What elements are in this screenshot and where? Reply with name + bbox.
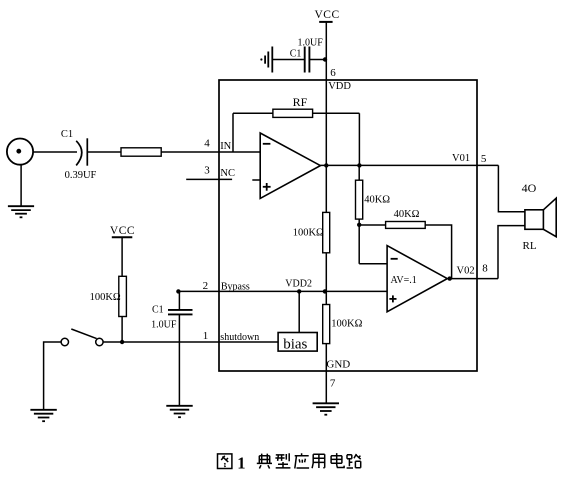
resistor 40K (vertical) body [356,180,363,219]
node bypass cap junction [176,289,180,293]
svg-text:3: 3 [204,165,210,177]
wire to RF [233,112,273,114]
wire switch to ground [44,342,62,410]
svg-text:100KΩ: 100KΩ [90,292,121,303]
svg-text:40KΩ: 40KΩ [394,209,420,220]
node resistor chain junction [323,289,327,293]
wire C1 to series resistor [87,151,121,153]
IC box U1 outline [219,80,477,371]
svg-text:shutdown: shutdown [220,332,259,343]
wire C1 to VDD rail [309,59,326,61]
wire U1 output to V01 pin 5 [320,164,498,166]
wire Bypass line pin 2 [178,290,387,292]
svg-text:C1: C1 [61,129,73,140]
svg-text:C1: C1 [152,304,164,315]
ground (left of C1 1.0UF, rotated) [260,47,272,73]
wire 40K to U2 output [425,225,451,279]
svg-text:V01: V01 [452,153,470,164]
VCC rail symbol (top) [315,9,340,22]
caption: 图 1 典型应用电路 [218,453,361,473]
node shutdown junction [120,340,124,344]
pin 3 NC stub [186,178,232,180]
svg-text:C1: C1 [290,49,302,60]
wire bypass node down to C1 cap [178,291,180,310]
wire connector to ground [20,165,22,207]
svg-text:1: 1 [203,330,209,342]
wire ground to C1 [272,59,304,61]
glyph 用 [312,454,325,468]
wire RF to output node [313,112,360,114]
resistor R_in body [121,148,161,156]
wire U2 output to V02 pin 8 [447,278,498,280]
svg-text:0.39UF: 0.39UF [65,170,97,181]
capacitor C1 0.39UF (input, polarized) [76,138,87,165]
wire pin 7 to ground [325,371,327,403]
resistor 100K (pull-up) body [119,276,127,316]
VCC rail symbol (left) [110,225,135,238]
ground (pin 7) [313,403,339,414]
svg-text:1.0UF: 1.0UF [151,320,177,331]
svg-text:7: 7 [330,377,336,389]
resistor 100K (lower internal) body [323,305,330,344]
wire resistor to pin 4 / op-amp U1 inverting input [161,151,260,153]
svg-text:VDD: VDD [328,81,351,92]
glyph 路 [347,454,361,468]
svg-text:bias: bias [283,336,307,352]
glyph 电 [331,453,344,467]
input connector J1 [7,139,33,165]
wire V01 to speaker [498,165,525,211]
svg-text:AV=.1: AV=.1 [391,275,417,286]
op-amp U1 [260,133,320,198]
node VDD2 junction [297,289,301,293]
wire connector to C1 input cap [33,151,77,153]
wire junction to U2 inverting input [359,263,387,265]
svg-text:8: 8 [482,262,488,274]
wire V02 up to speaker [498,226,525,279]
node U2 output junction [448,276,452,280]
svg-text:VCC: VCC [315,9,340,21]
wire shutdown pin 1 [103,341,278,343]
glyph 图 [218,454,232,469]
wire VCC through 100K to shutdown line [121,237,123,342]
glyph 型 [275,453,290,468]
node output/VDD junction [324,163,328,167]
bias block [278,333,317,352]
switch S1 [61,329,103,346]
svg-text:NC: NC [220,168,235,179]
op-amp U2 AV=.1 [387,246,447,312]
svg-text:100KΩ: 100KΩ [293,228,324,239]
svg-text:40KΩ: 40KΩ [364,195,390,206]
wire output node down through 40K [358,165,360,263]
node VDD junction dot [323,57,327,61]
svg-text:4O: 4O [522,181,537,195]
svg-text:VDD2: VDD2 [285,279,312,290]
capacitor C1 1.0UF (top) [305,47,310,73]
svg-text:5: 5 [481,153,487,165]
glyph 应 [295,453,309,468]
speaker RL [525,198,556,237]
glyph 典 [257,454,272,469]
svg-text:RL: RL [523,240,537,252]
wire feedback tap up from IN [232,113,234,152]
resistor 40K (horizontal) body [386,222,426,229]
ground (bypass cap) [166,406,192,417]
node output/feedback junction [357,163,361,167]
wire VCC to VDD pin 6 and down internal rail [325,22,327,371]
svg-text:IN: IN [220,141,231,152]
svg-text:4: 4 [204,138,210,150]
svg-text:Bypass: Bypass [221,281,250,292]
wire U1 non-inverting stub [252,179,260,181]
svg-text:2: 2 [203,280,209,292]
resistor RF body [273,109,313,117]
svg-text:VCC: VCC [110,225,135,237]
ground (input connector) [8,206,34,217]
resistor 100K (upper internal) body [323,212,330,252]
svg-text:RF: RF [293,95,308,109]
svg-text:100KΩ: 100KΩ [331,319,362,330]
svg-text:1: 1 [237,454,245,473]
wire junction to 40K horizontal [359,224,385,226]
svg-text:1.0UF: 1.0UF [298,38,324,49]
node below 40K junction [357,223,361,227]
wire feedback down to output [358,113,360,165]
svg-text:GND: GND [326,359,350,371]
wire VDD2 to bias [298,291,300,332]
svg-text:6: 6 [330,67,336,79]
svg-text:V02: V02 [457,266,475,277]
capacitor C1 1.0UF (bypass) [168,310,193,315]
ground (switch) [30,410,56,421]
wire cap to ground [178,314,180,405]
